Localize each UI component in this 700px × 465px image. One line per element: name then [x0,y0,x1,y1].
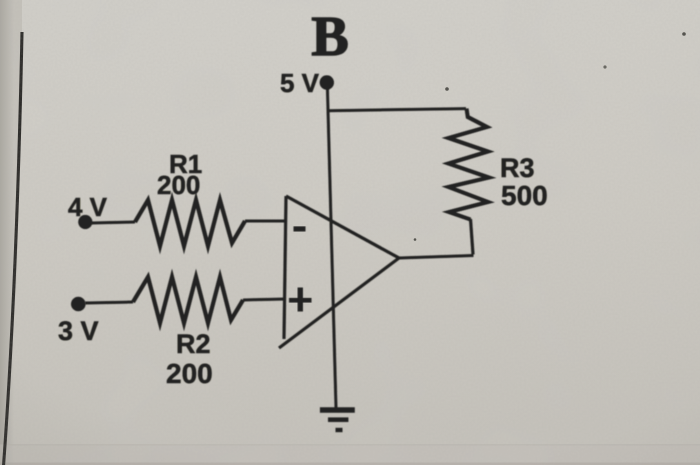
svg-text:200: 200 [166,358,213,389]
svg-text:200: 200 [157,170,200,200]
svg-text:R3: R3 [500,153,535,183]
svg-text:4 V: 4 V [68,192,108,222]
svg-text:B: B [311,6,348,68]
svg-text:R2: R2 [176,329,211,359]
svg-text:5 V: 5 V [280,68,320,98]
svg-text:3 V: 3 V [58,316,99,346]
svg-text:500: 500 [501,180,548,211]
